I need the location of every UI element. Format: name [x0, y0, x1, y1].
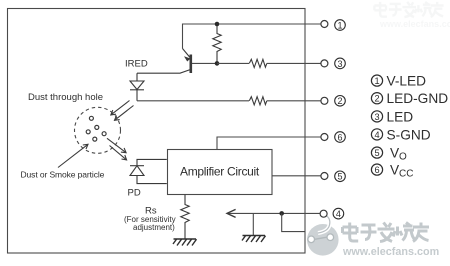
svg-text:LED: LED — [387, 109, 414, 124]
watermark logo stamp — [307, 216, 339, 256]
pin number 4 — [333, 208, 344, 219]
amplifier circuit box — [168, 150, 273, 195]
svg-text:PD: PD — [128, 188, 141, 199]
scattered light arrows toward PD — [107, 138, 127, 160]
svg-text:www.elecfans.com: www.elecfans.com — [379, 19, 450, 29]
base wire to node — [192, 62, 217, 64]
legend row 1 : V-LED — [371, 74, 426, 89]
svg-text:4: 4 — [374, 130, 379, 140]
wire R2 to terminal 3 — [267, 62, 321, 64]
wire V-LED top rail — [183, 24, 321, 49]
resistor R2 horizontal — [249, 59, 266, 67]
terminal 4 — [320, 210, 327, 217]
char shao — [393, 223, 415, 241]
dust particles dots — [86, 116, 106, 141]
wire IRED cathode to R3 — [137, 100, 249, 102]
svg-text:adjustment): adjustment) — [133, 223, 175, 232]
transistor Q1 (PNP) — [137, 49, 191, 74]
pin number 2 — [335, 96, 346, 107]
terminal 6 — [321, 134, 328, 141]
svg-text:1: 1 — [337, 20, 342, 30]
IRED diode — [130, 73, 144, 101]
svg-text:V-LED: V-LED — [387, 74, 427, 89]
package outline box — [8, 9, 306, 254]
wire drop to GND2 — [252, 213, 254, 235]
legend row 4 : S-GND — [371, 127, 430, 142]
junction dot on S-GND wire — [279, 211, 284, 216]
svg-text:6: 6 — [374, 165, 379, 175]
pin number 5 — [335, 171, 346, 182]
light arrows from IRED into hole — [111, 101, 134, 121]
junction dot bottom of R1 — [215, 61, 220, 66]
base bar — [190, 55, 193, 74]
svg-text:www.elecfans.com: www.elecfans.com — [342, 246, 439, 258]
svg-text:5: 5 — [337, 172, 342, 182]
particle pointer arrow — [58, 144, 88, 167]
svg-text:O: O — [399, 152, 407, 163]
junction dot top of R1 — [215, 22, 220, 27]
char fa — [378, 223, 395, 242]
legend row 3 : LED — [371, 109, 413, 124]
wire node to R2 — [217, 62, 249, 64]
watermark chinese text — [343, 223, 430, 242]
S-GND wire with left arrow — [227, 212, 320, 214]
collector lead — [137, 70, 191, 74]
svg-text:4: 4 — [336, 209, 341, 219]
svg-text:1: 1 — [374, 76, 379, 86]
svg-text:Dust or Smoke particle: Dust or Smoke particle — [21, 170, 105, 180]
svg-text:S-GND: S-GND — [387, 127, 431, 142]
terminal 2 — [321, 97, 328, 104]
legend row 2 : LED-GND — [371, 91, 448, 106]
wire Vcc from amp box to terminal 6 — [217, 137, 321, 150]
svg-text:Amplifier Circuit: Amplifier Circuit — [180, 165, 260, 179]
ground GND1 below Rs — [173, 239, 197, 246]
terminal 1 — [321, 21, 328, 28]
svg-text:2: 2 — [374, 94, 379, 104]
resistor R3 horizontal — [249, 97, 266, 105]
char zi — [361, 225, 377, 240]
terminal 3 — [321, 60, 328, 67]
PD photodiode — [130, 159, 167, 183]
pin number 3 — [335, 58, 346, 69]
svg-text:LED-GND: LED-GND — [387, 91, 449, 106]
dust hole dashed circle — [75, 107, 121, 153]
wire junction to case — [282, 213, 305, 231]
wire Vo from amp box to terminal 5 — [272, 175, 321, 177]
watermark chinese text emboss layer — [343, 223, 430, 242]
svg-text:3: 3 — [374, 112, 379, 122]
terminal 5 — [321, 173, 328, 180]
pin number 1 — [335, 20, 346, 31]
wire R3 to terminal 2 — [267, 100, 321, 102]
svg-text:6: 6 — [337, 132, 342, 142]
pin number 6 — [335, 132, 346, 143]
svg-text:2: 2 — [337, 96, 342, 106]
faint top-right watermark — [374, 2, 450, 29]
svg-text:CC: CC — [399, 169, 413, 180]
svg-text:5: 5 — [374, 148, 379, 158]
legend row 5 : Vo — [371, 146, 407, 163]
svg-text:3: 3 — [337, 59, 342, 69]
char dian — [343, 223, 359, 242]
svg-text:Dust through hole: Dust through hole — [28, 92, 103, 103]
emitter lead with arrow — [183, 49, 191, 58]
legend row 6 : Vcc — [371, 163, 413, 180]
svg-text:IRED: IRED — [125, 59, 148, 70]
ground GND2 — [242, 236, 266, 243]
resistor R1 vertical — [213, 24, 221, 63]
char you — [413, 223, 429, 242]
Rs resistor vertical — [181, 195, 189, 239]
